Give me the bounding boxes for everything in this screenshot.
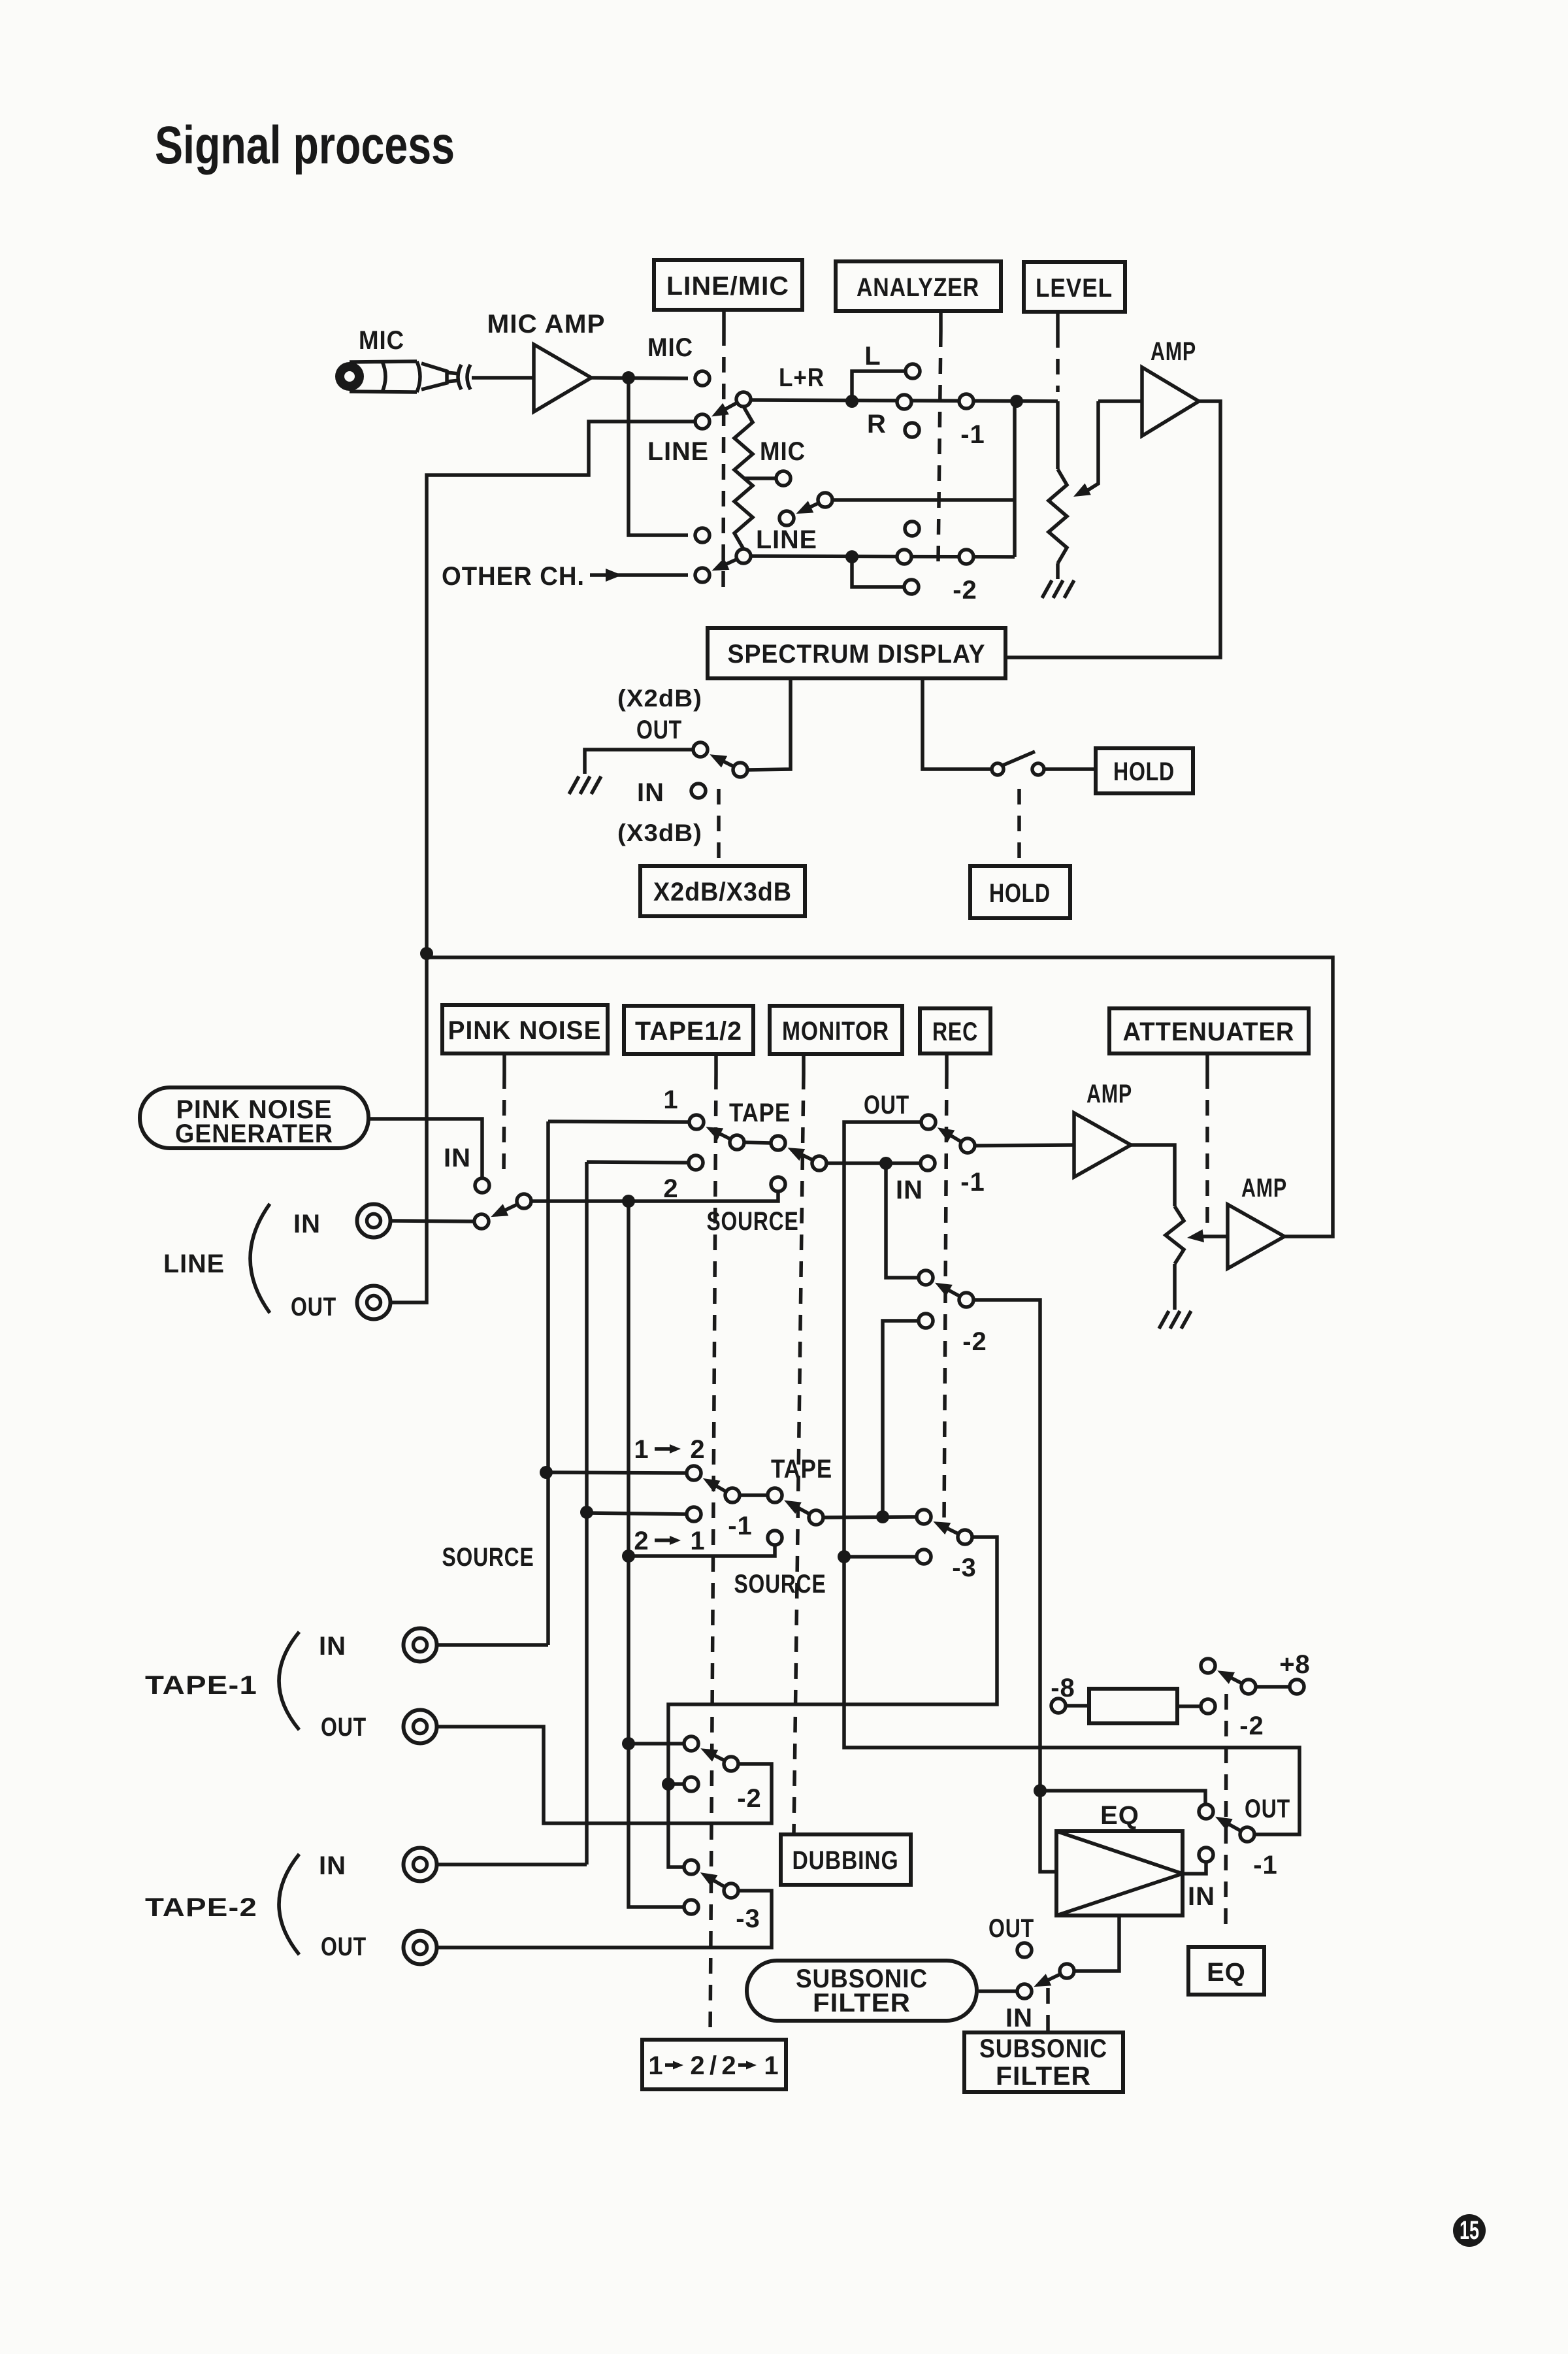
svg-text:2: 2	[690, 1435, 705, 1464]
svg-text:OUT: OUT	[321, 1932, 367, 1961]
svg-text:AMP: AMP	[1086, 1080, 1132, 1108]
svg-text:IN: IN	[293, 1210, 321, 1238]
svg-text:R: R	[867, 410, 887, 439]
svg-text:SOURCE: SOURCE	[442, 1543, 534, 1572]
svg-text:EQ: EQ	[1100, 1801, 1139, 1830]
svg-text:1: 1	[764, 2051, 779, 2080]
svg-text:-2: -2	[962, 1327, 987, 1356]
svg-text:FILTER: FILTER	[996, 2062, 1091, 2091]
svg-text:2: 2	[721, 2051, 736, 2080]
svg-text:OUT: OUT	[321, 1713, 367, 1742]
svg-text:LEVEL: LEVEL	[1036, 274, 1113, 303]
svg-text:SOURCE: SOURCE	[707, 1207, 799, 1236]
svg-text:L: L	[864, 342, 881, 371]
svg-text:REC: REC	[932, 1018, 978, 1046]
svg-text:L+R: L+R	[779, 363, 825, 392]
svg-text:-3: -3	[736, 1904, 760, 1933]
svg-text:IN: IN	[637, 778, 664, 807]
svg-text:2: 2	[634, 1527, 649, 1555]
svg-text:OUT: OUT	[636, 716, 682, 744]
svg-text:Signal process: Signal process	[155, 116, 455, 175]
svg-text:SUBSONIC: SUBSONIC	[979, 2034, 1107, 2063]
svg-text:SPECTRUM DISPLAY: SPECTRUM DISPLAY	[728, 640, 986, 669]
svg-text:OUT: OUT	[1245, 1795, 1290, 1823]
svg-text:MIC: MIC	[359, 326, 404, 355]
svg-text:OUT: OUT	[988, 1914, 1034, 1943]
svg-text:LINE: LINE	[756, 525, 817, 554]
svg-text:IN: IN	[319, 1851, 346, 1880]
svg-text:IN: IN	[1188, 1882, 1215, 1911]
svg-text:IN: IN	[896, 1176, 923, 1204]
svg-text:LINE: LINE	[163, 1250, 225, 1278]
svg-text:IN: IN	[319, 1632, 346, 1661]
svg-text:-1: -1	[1253, 1851, 1278, 1880]
svg-text:ANALYZER: ANALYZER	[857, 273, 979, 302]
svg-text:MIC AMP: MIC AMP	[487, 310, 606, 339]
svg-text:OUT: OUT	[291, 1293, 336, 1321]
svg-text:AMP: AMP	[1151, 337, 1196, 366]
svg-text:OTHER CH.: OTHER CH.	[442, 562, 585, 591]
svg-text:-3: -3	[952, 1553, 977, 1582]
svg-text:1: 1	[690, 1527, 705, 1555]
svg-text:MIC: MIC	[760, 437, 806, 466]
svg-text:TAPE: TAPE	[771, 1455, 832, 1484]
svg-text:GENERATER: GENERATER	[175, 1119, 333, 1148]
svg-text:EQ: EQ	[1207, 1958, 1246, 1987]
svg-text:-2: -2	[737, 1784, 762, 1813]
svg-text:(X3dB): (X3dB)	[617, 820, 702, 846]
svg-text:TAPE-2: TAPE-2	[145, 1893, 257, 1922]
svg-text:TAPE1/2: TAPE1/2	[635, 1017, 742, 1046]
svg-text:-2: -2	[1239, 1712, 1264, 1740]
svg-text:1: 1	[648, 2051, 663, 2080]
svg-text:FILTER: FILTER	[813, 1989, 911, 2017]
svg-text:ATTENUATER: ATTENUATER	[1123, 1018, 1295, 1046]
svg-text:HOLD: HOLD	[1113, 757, 1175, 786]
svg-text:-1: -1	[960, 420, 985, 449]
svg-text:2: 2	[690, 2051, 705, 2080]
svg-text:(X2dB): (X2dB)	[617, 685, 702, 712]
svg-text:IN: IN	[444, 1144, 471, 1172]
svg-text:15: 15	[1460, 2216, 1479, 2245]
svg-text:-8: -8	[1051, 1674, 1075, 1702]
svg-text:AMP: AMP	[1241, 1174, 1287, 1202]
svg-text:X2dB/X3dB: X2dB/X3dB	[653, 878, 792, 906]
svg-text:MIC: MIC	[647, 333, 693, 362]
svg-text:MONITOR: MONITOR	[782, 1017, 889, 1046]
svg-text:HOLD: HOLD	[989, 879, 1051, 908]
svg-text:-1: -1	[960, 1168, 985, 1197]
svg-text:2: 2	[663, 1174, 678, 1203]
svg-text:PINK NOISE: PINK NOISE	[448, 1016, 602, 1045]
svg-text:/: /	[710, 2051, 717, 2080]
svg-text:+8: +8	[1279, 1650, 1311, 1679]
svg-text:TAPE: TAPE	[729, 1099, 791, 1127]
svg-text:-2: -2	[953, 576, 977, 605]
svg-text:1: 1	[634, 1435, 649, 1464]
svg-text:DUBBING: DUBBING	[792, 1846, 899, 1875]
svg-text:-1: -1	[728, 1512, 753, 1540]
svg-text:IN: IN	[1005, 2004, 1033, 2032]
svg-text:1: 1	[663, 1086, 678, 1114]
svg-text:TAPE-1: TAPE-1	[145, 1671, 257, 1700]
svg-text:LINE: LINE	[647, 437, 709, 466]
svg-text:OUT: OUT	[864, 1091, 909, 1119]
svg-text:SOURCE: SOURCE	[734, 1570, 826, 1599]
svg-text:LINE/MIC: LINE/MIC	[666, 272, 789, 301]
